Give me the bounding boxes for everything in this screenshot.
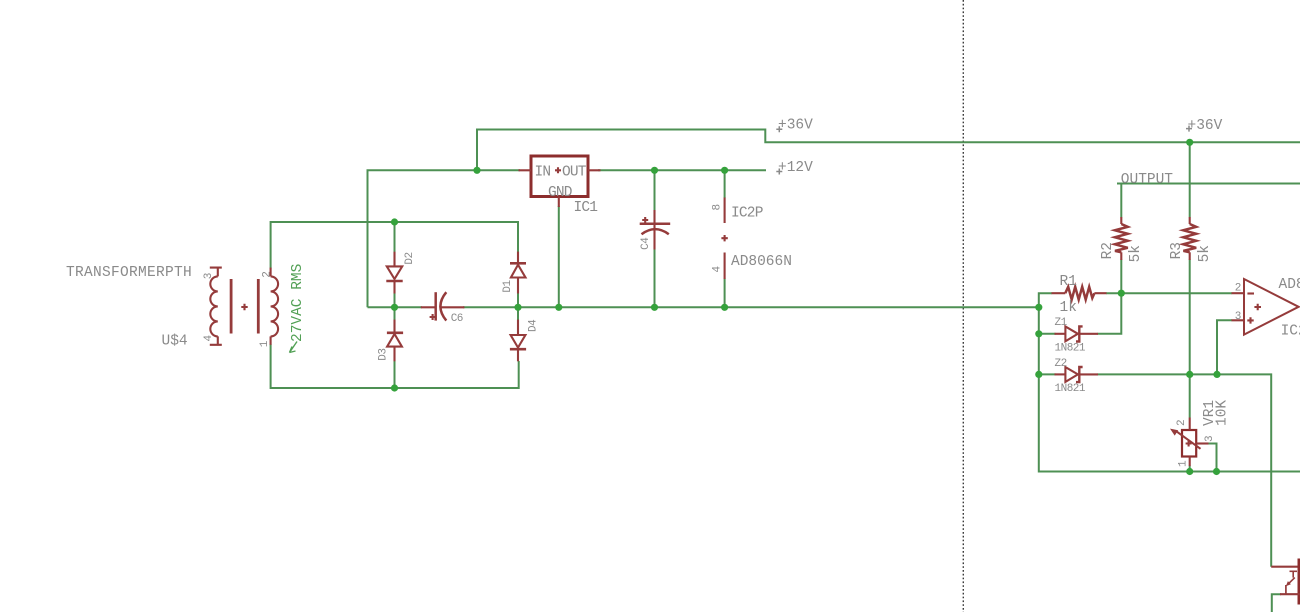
svg-text:3: 3 [203,273,215,279]
svg-text:+12V: +12V [778,160,813,176]
svg-text:AD806: AD806 [1279,277,1300,293]
svg-text:D2: D2 [404,252,416,264]
svg-text:10K: 10K [1215,400,1231,426]
svg-text:R3: R3 [1169,242,1185,259]
svg-text:D3: D3 [377,348,389,360]
svg-text:8: 8 [712,204,724,210]
svg-text:2: 2 [262,272,274,278]
svg-text:IC1: IC1 [574,200,598,216]
svg-text:D1: D1 [502,279,514,292]
svg-text:3: 3 [1204,436,1216,442]
svg-text:5k: 5k [1128,245,1144,262]
svg-text:U$4: U$4 [162,334,188,350]
svg-text:D4: D4 [528,319,540,332]
svg-text:1N821: 1N821 [1055,342,1086,354]
svg-text:IC2P: IC2P [731,206,763,222]
svg-text:1: 1 [1178,460,1190,467]
svg-text:OUT: OUT [562,164,587,180]
svg-text:R2: R2 [1100,242,1116,259]
svg-text:2: 2 [1176,420,1188,426]
svg-text:1k: 1k [1060,300,1077,316]
svg-text:C6: C6 [451,313,463,325]
svg-text:27VAC RMS: 27VAC RMS [290,264,306,342]
svg-text:C4: C4 [640,237,652,250]
svg-text:2: 2 [1235,283,1241,295]
svg-text:+36V: +36V [1188,118,1223,134]
svg-text:AD8066N: AD8066N [731,254,792,270]
svg-text:Z2: Z2 [1055,358,1067,370]
svg-text:TRANSFORMERPTH: TRANSFORMERPTH [66,265,192,281]
svg-text:R1: R1 [1060,274,1077,290]
svg-text:GND: GND [548,185,572,201]
svg-text:IC2A: IC2A [1281,324,1300,340]
svg-text:1N821: 1N821 [1055,383,1086,395]
svg-text:4: 4 [712,266,724,273]
svg-text:IN: IN [535,164,551,180]
svg-text:+36V: +36V [778,118,813,134]
svg-text:4: 4 [203,335,215,342]
svg-text:OUTPUT: OUTPUT [1121,172,1174,188]
svg-text:5k: 5k [1197,245,1213,262]
svg-text:Z1: Z1 [1055,317,1068,329]
svg-text:3: 3 [1235,311,1241,323]
svg-text:1: 1 [259,340,271,347]
